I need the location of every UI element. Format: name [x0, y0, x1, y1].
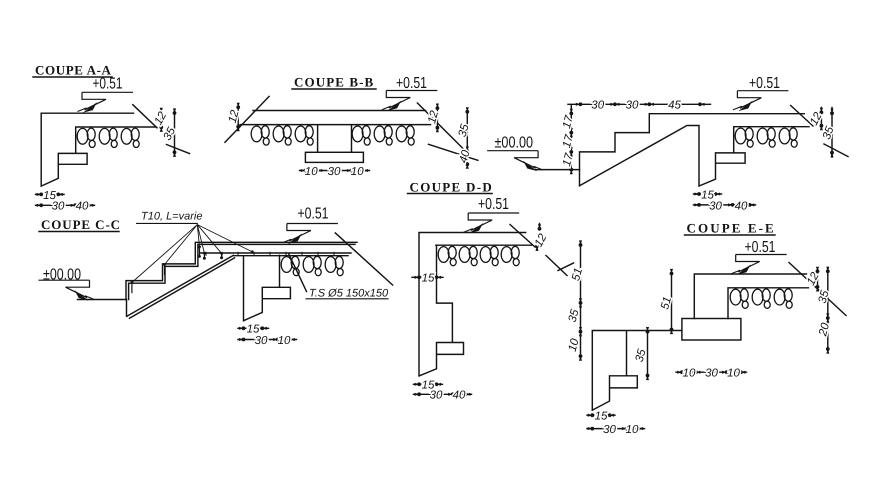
svg-text:+0.51: +0.51 — [396, 75, 427, 92]
svg-text:COUPE D-D: COUPE D-D — [410, 180, 494, 195]
svg-text:±00.00: ±00.00 — [43, 266, 81, 283]
svg-text:15: 15 — [247, 324, 260, 336]
svg-text:40: 40 — [453, 390, 466, 402]
svg-text:10: 10 — [351, 166, 364, 178]
svg-text:30: 30 — [709, 200, 722, 212]
svg-text:10: 10 — [727, 368, 740, 380]
svg-text:30: 30 — [328, 166, 341, 178]
svg-text:40: 40 — [735, 200, 748, 212]
svg-text:15: 15 — [422, 273, 435, 285]
svg-text:±00.00: ±00.00 — [495, 135, 534, 152]
svg-text:T10, L=varie: T10, L=varie — [141, 211, 202, 223]
svg-text:30: 30 — [591, 100, 604, 112]
svg-text:30: 30 — [626, 100, 639, 112]
svg-text:30: 30 — [705, 368, 718, 380]
svg-text:45: 45 — [668, 100, 681, 112]
svg-text:COUPE E-E: COUPE E-E — [687, 221, 776, 236]
svg-text:30: 30 — [255, 335, 268, 347]
svg-text:+0.51: +0.51 — [478, 196, 509, 213]
svg-text:30: 30 — [430, 390, 443, 402]
svg-text:+0.51: +0.51 — [93, 76, 123, 93]
svg-text:10: 10 — [626, 424, 639, 436]
svg-text:15: 15 — [595, 411, 608, 423]
svg-text:+0.51: +0.51 — [298, 205, 329, 222]
svg-text:COUPE C-C: COUPE C-C — [41, 217, 121, 232]
svg-text:+0.51: +0.51 — [745, 239, 776, 256]
svg-text:10: 10 — [278, 335, 291, 347]
svg-text:10: 10 — [305, 166, 318, 178]
svg-text:30: 30 — [52, 201, 65, 213]
svg-text:COUPE B-B: COUPE B-B — [294, 75, 374, 90]
svg-text:+0.51: +0.51 — [749, 75, 780, 92]
svg-text:30: 30 — [603, 424, 616, 436]
svg-text:10: 10 — [683, 368, 696, 380]
svg-text:40: 40 — [76, 201, 89, 213]
svg-text:T.S Ø5 150x150: T.S Ø5 150x150 — [309, 288, 389, 300]
